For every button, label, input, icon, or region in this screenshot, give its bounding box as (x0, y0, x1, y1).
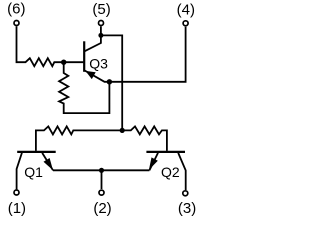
svg-text:Q2: Q2 (161, 164, 180, 180)
svg-text:(5): (5) (92, 1, 110, 18)
svg-text:Q1: Q1 (24, 164, 43, 180)
svg-text:(6): (6) (7, 0, 25, 17)
svg-text:(4): (4) (177, 2, 195, 19)
svg-text:(2): (2) (93, 200, 111, 217)
svg-text:(3): (3) (178, 200, 196, 217)
svg-text:Q3: Q3 (89, 56, 108, 72)
svg-text:(1): (1) (8, 200, 26, 217)
